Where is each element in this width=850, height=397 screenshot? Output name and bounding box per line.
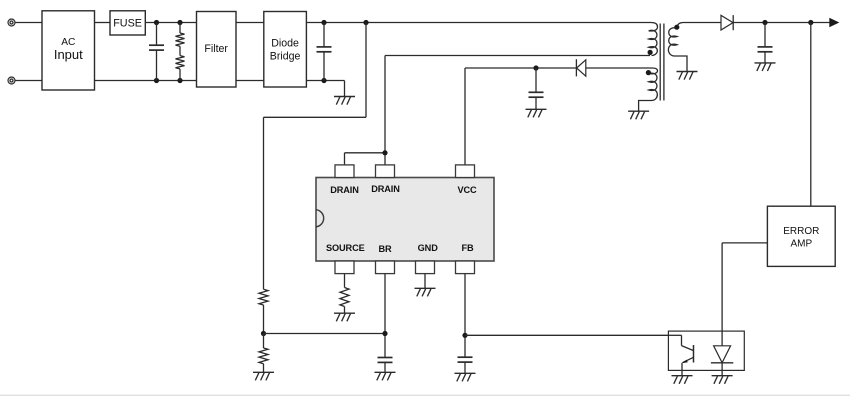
wire Filter to Diode Bridge (bottom) — [236, 80, 264, 82]
svg-text:FUSE: FUSE — [113, 18, 142, 30]
ground (auxiliary) — [628, 111, 649, 119]
pin stub bottom p7 — [456, 261, 475, 274]
svg-text:SOURCE: SOURCE — [326, 243, 365, 253]
ground (secondary) — [677, 72, 698, 80]
ground (LED) — [712, 376, 733, 384]
wire output to error amp — [810, 23, 812, 207]
junction — [177, 78, 182, 83]
wire BR pin down — [384, 274, 386, 358]
block ERROR AMP — [767, 206, 835, 266]
svg-text:Input: Input — [54, 47, 83, 62]
LED D3 (optocoupler) — [711, 346, 733, 376]
ground (GND pin) — [415, 288, 436, 296]
polarity dot (primary) — [648, 50, 653, 55]
wire FB pin down — [464, 274, 466, 358]
wire GND pin — [424, 274, 426, 289]
wire Filter to Diode Bridge (top) — [236, 22, 264, 24]
wire J1 to AC Input — [15, 22, 42, 24]
wire DC bus (top rail) — [306, 22, 651, 24]
footer rule — [0, 394, 850, 396]
svg-text:ERROR: ERROR — [783, 226, 819, 237]
pin label SOURCE — [326, 243, 365, 253]
ground (phototransistor) — [672, 376, 693, 384]
capacitor C4 (output) — [758, 23, 773, 63]
output arrow — [829, 18, 839, 27]
capacitor C3 (VCC) — [529, 68, 544, 109]
junction — [533, 65, 538, 70]
IC U1 notch — [316, 210, 324, 227]
wire DC bus to divider — [264, 23, 367, 290]
pin label DRAIN — [371, 184, 400, 194]
pin stub bottom p6 — [416, 261, 435, 274]
pin label VCC — [457, 185, 477, 195]
junction — [462, 333, 467, 338]
svg-text:FB: FB — [461, 243, 474, 253]
capacitor C2 (bulk) — [317, 23, 332, 81]
block Filter — [197, 12, 237, 88]
junction — [177, 20, 182, 25]
wire FUSE to Filter — [145, 22, 196, 24]
junction — [321, 78, 326, 83]
junction — [261, 331, 266, 336]
pin label FB — [461, 243, 474, 253]
junction — [154, 78, 159, 83]
pin label BR — [378, 244, 392, 254]
svg-text:GND: GND — [418, 243, 439, 253]
svg-text:DRAIN: DRAIN — [371, 184, 400, 194]
wire divider to BR pin — [264, 333, 386, 335]
block Diode Bridge — [264, 12, 307, 88]
wire FB to optocoupler — [465, 334, 668, 336]
junction — [363, 20, 368, 25]
svg-text:VCC: VCC — [457, 185, 477, 195]
capacitor C5 (BR) — [378, 358, 393, 373]
svg-text:AMP: AMP — [790, 238, 812, 249]
svg-text:Bridge: Bridge — [270, 50, 301, 62]
transformer auxiliary winding — [639, 68, 658, 111]
ground (VCC cap) — [526, 109, 547, 117]
ground (bridge return) — [334, 97, 355, 105]
junction — [321, 20, 326, 25]
pin stub bottom p5 — [376, 261, 395, 274]
wire secondary to output — [684, 22, 830, 24]
svg-text:BR: BR — [378, 244, 392, 254]
junction — [154, 20, 159, 25]
ground (output cap) — [755, 63, 776, 71]
fuse F1 — [110, 11, 145, 35]
pin stub top p1 — [335, 165, 354, 178]
pin label DRAIN — [330, 185, 359, 195]
wire aux to VCC — [465, 68, 652, 165]
wire DRAIN pins tie — [345, 153, 386, 165]
ground (FB cap) — [455, 373, 476, 381]
ground (BR cap) — [375, 372, 396, 380]
pin stub top p3 — [456, 165, 475, 178]
transformer primary winding — [649, 23, 658, 56]
polarity dot (secondary) — [674, 25, 679, 30]
resistor R5 (source) — [340, 274, 349, 314]
pin label GND — [418, 243, 439, 253]
IC U1 body — [316, 178, 494, 262]
transformer core — [660, 24, 664, 101]
optocoupler U2 box — [668, 331, 744, 370]
pin stub top p2 — [376, 165, 395, 178]
transformer secondary winding — [668, 23, 687, 72]
capacitor C1 (X-cap) — [149, 23, 164, 81]
wire J2 to AC Input — [15, 80, 42, 82]
junction — [382, 331, 387, 336]
svg-text:Diode: Diode — [271, 37, 299, 49]
resistor R4 — [259, 334, 268, 373]
diode D1 (output rectifier) — [721, 15, 733, 30]
junction — [382, 150, 387, 155]
resistor R2 — [176, 46, 185, 80]
terminal J1 — [8, 19, 15, 26]
resistor R1 — [176, 23, 185, 47]
wire AC Input to FUSE — [95, 22, 111, 24]
wire primary return to DRAIN — [385, 56, 650, 153]
ground (source) — [334, 313, 355, 321]
wire error amp to optocoupler LED — [722, 243, 767, 346]
block AC Input — [42, 11, 95, 90]
phototransistor Q1 — [668, 335, 693, 375]
svg-text:Filter: Filter — [204, 43, 228, 55]
resistor R3 — [259, 289, 268, 333]
junction — [808, 20, 813, 25]
terminal J2 — [8, 77, 15, 84]
pin stub bottom p4 — [335, 261, 354, 274]
capacitor C6 (FB) — [458, 357, 473, 373]
polarity dot (auxiliary) — [646, 70, 651, 75]
ground (divider) — [253, 372, 274, 380]
svg-text:DRAIN: DRAIN — [330, 185, 359, 195]
diode D2 (aux rectifier) — [576, 59, 585, 76]
wire AC Input to Filter (bottom) — [95, 80, 197, 82]
junction — [762, 20, 767, 25]
wire bridge bottom to ground — [306, 81, 344, 97]
